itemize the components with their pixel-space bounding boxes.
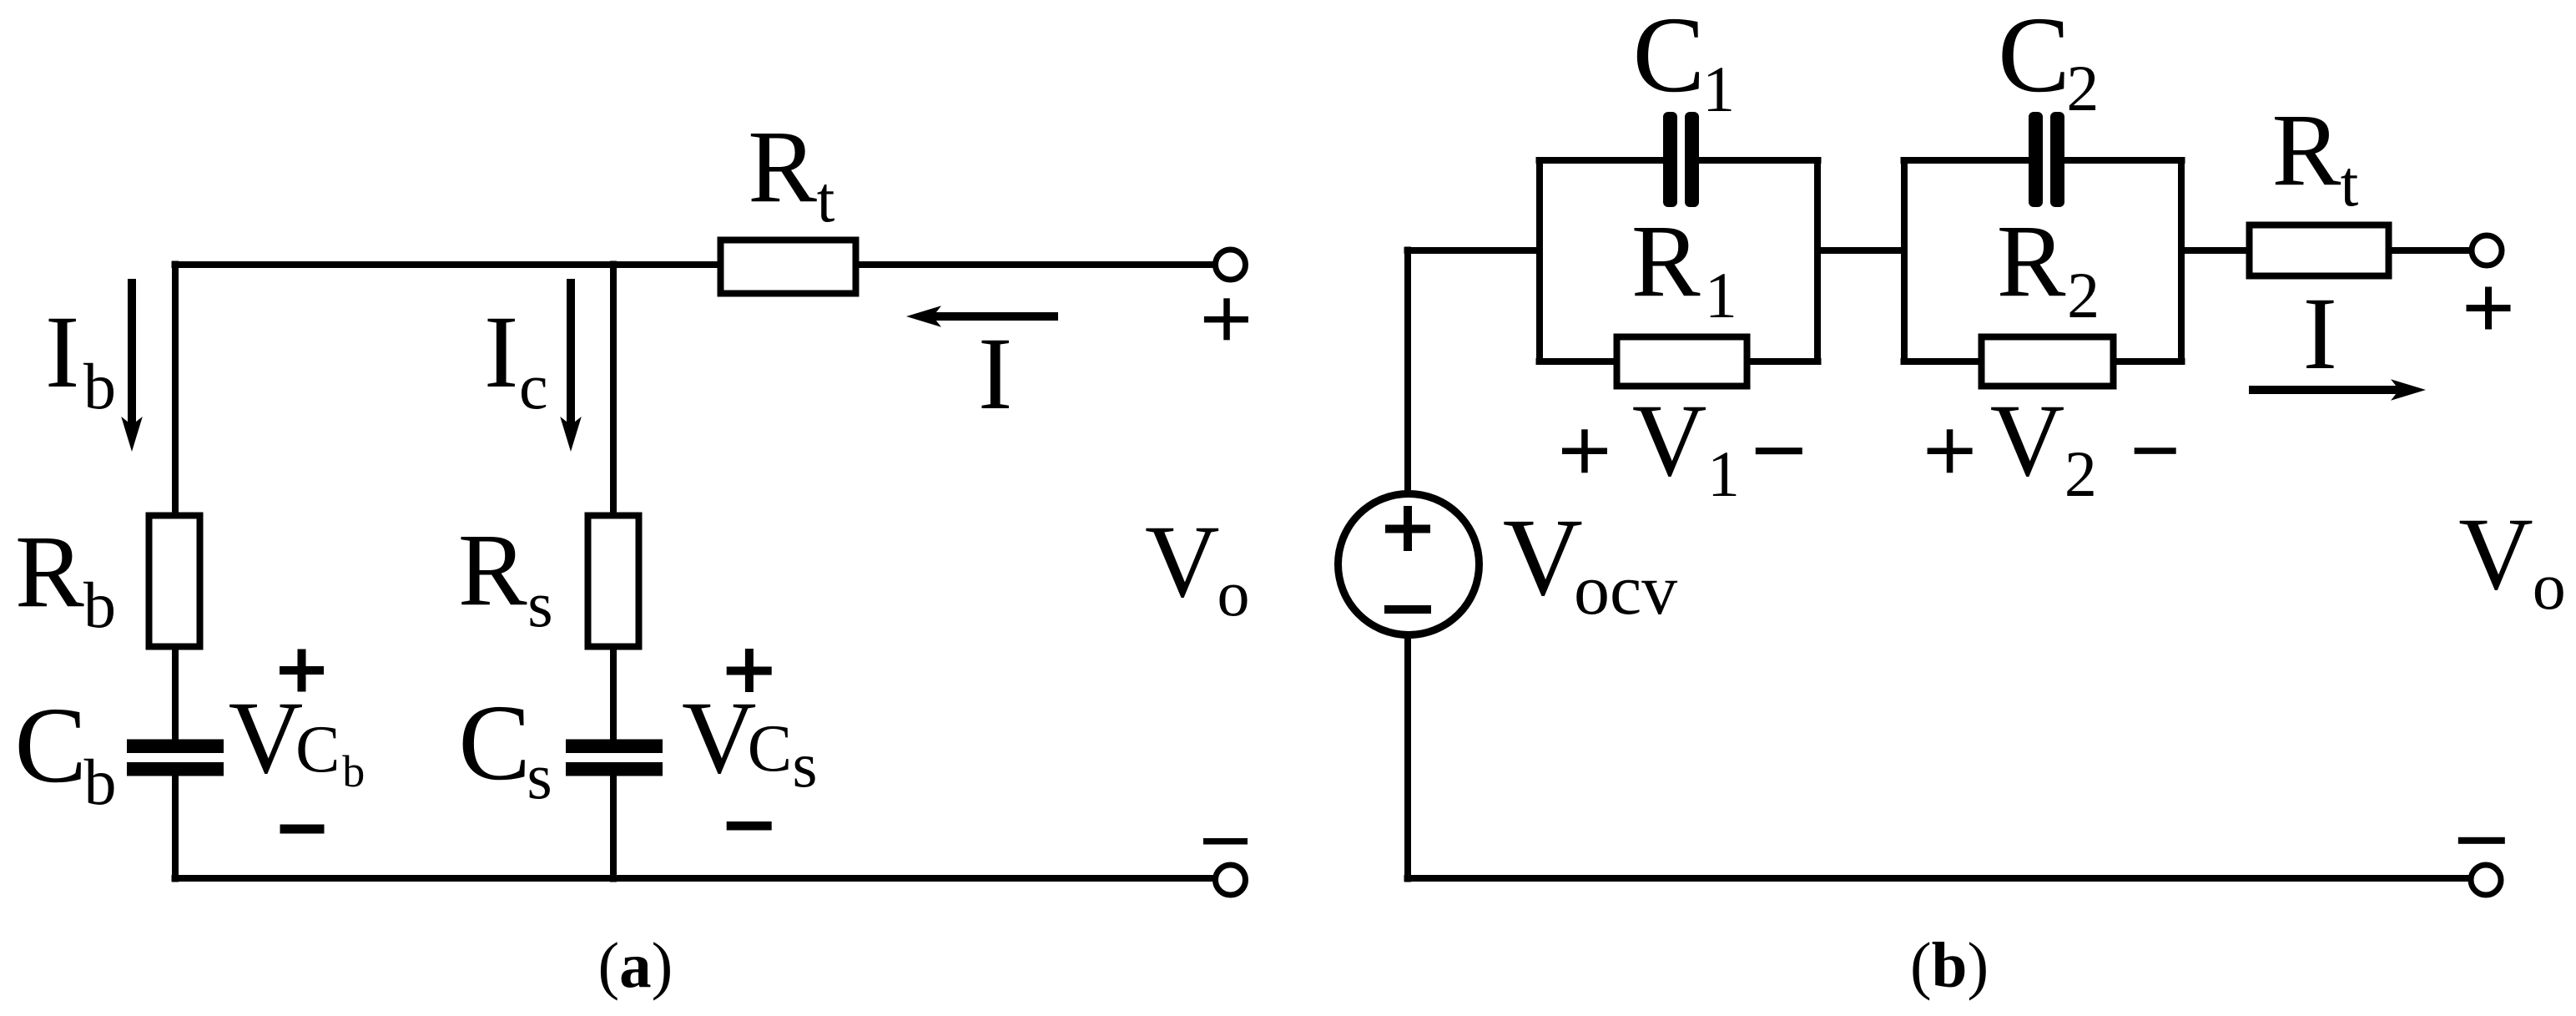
svg-text:C: C	[1633, 0, 1706, 115]
svg-text:I: I	[484, 295, 518, 409]
svg-text:c: c	[519, 350, 548, 422]
svg-text:V: V	[1145, 504, 1220, 619]
svg-text:C: C	[1998, 0, 2070, 115]
svg-text:o: o	[2533, 550, 2566, 624]
svg-text:C: C	[14, 685, 87, 806]
svg-text:V: V	[1632, 383, 1707, 498]
svg-text:(b): (b)	[1910, 929, 1989, 1001]
svg-text:V: V	[229, 680, 304, 795]
svg-text:V: V	[1503, 495, 1583, 619]
svg-text:b: b	[84, 746, 117, 818]
svg-text:2: 2	[2067, 259, 2100, 331]
svg-text:1: 1	[1702, 53, 1735, 125]
svg-text:b: b	[83, 569, 116, 641]
svg-text:o: o	[1217, 557, 1250, 629]
svg-text:(a): (a)	[598, 929, 673, 1001]
svg-text:s: s	[527, 740, 552, 812]
svg-text:V: V	[2458, 497, 2533, 611]
svg-text:ocv: ocv	[1574, 549, 1677, 629]
svg-text:R: R	[1631, 204, 1701, 318]
svg-text:R: R	[15, 514, 84, 629]
svg-text:t: t	[2341, 147, 2359, 220]
svg-text:I: I	[978, 316, 1012, 431]
svg-text:I: I	[2303, 276, 2337, 391]
svg-text:b: b	[83, 350, 116, 422]
svg-text:t: t	[817, 163, 835, 235]
svg-text:R: R	[1997, 204, 2066, 318]
svg-text:R: R	[458, 513, 527, 627]
svg-text:I: I	[45, 295, 79, 409]
svg-text:V: V	[1990, 383, 2065, 498]
svg-text:2: 2	[2066, 52, 2099, 124]
svg-text:R: R	[2272, 93, 2342, 207]
svg-text:s: s	[527, 568, 552, 640]
svg-text:C: C	[748, 712, 792, 786]
svg-text:C: C	[458, 683, 531, 803]
svg-text:b: b	[342, 746, 365, 796]
svg-text:1: 1	[1705, 259, 1737, 331]
svg-text:1: 1	[1707, 437, 1740, 510]
svg-text:C: C	[295, 713, 340, 786]
svg-text:2: 2	[2064, 437, 2097, 510]
svg-text:V: V	[682, 680, 757, 795]
svg-text:s: s	[793, 729, 818, 801]
svg-text:R: R	[748, 109, 817, 224]
